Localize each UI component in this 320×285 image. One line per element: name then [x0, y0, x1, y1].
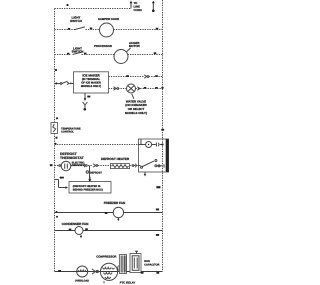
ground tick freezer fan: [117, 218, 119, 220]
wire condenser fan rung: [55, 230, 163, 232]
thermostat defrost bimetal: [61, 161, 71, 171]
node dot condenser rail: [156, 234, 159, 236]
node dot bottom c: [156, 272, 159, 274]
node dot out2 rail: [161, 87, 163, 89]
connector plug out1: [144, 75, 147, 78]
relay PTC: [120, 255, 127, 274]
svg-text:DEFROST: DEFROST: [72, 164, 84, 167]
arrow to line cord left: [130, 3, 132, 9]
svg-text:(DEFROST HEATER IS: (DEFROST HEATER IS: [73, 185, 101, 188]
node dot arrow base: [152, 9, 155, 12]
box heater note: [69, 182, 111, 194]
node dot condenser b: [85, 228, 88, 230]
svg-text:SWITCH: SWITCH: [70, 19, 82, 23]
ground tick condenser fan: [80, 235, 82, 237]
wire top neutral line: [55, 8, 132, 10]
node dot rung2 a: [67, 53, 69, 55]
node dot freezer a: [105, 212, 108, 214]
connector plug out2 right: [137, 87, 140, 90]
wire defrost rung: [55, 165, 139, 167]
connector defrost b: [83, 164, 85, 168]
svg-text:THERMOSTAT: THERMOSTAT: [60, 156, 85, 160]
switch SW1 light switch blade: [75, 27, 85, 30]
pin tick cap top: [135, 251, 138, 253]
wire left rail: [54, 9, 56, 272]
connector defrost a: [59, 165, 61, 167]
wire ice maker out 1: [109, 76, 163, 78]
wire ice maker feed: [55, 83, 74, 85]
wire L into note box: [55, 180, 66, 188]
node dot ice feed rail: [55, 83, 57, 85]
contact timer upper: [155, 160, 157, 162]
node dot right rail y130: [161, 129, 164, 131]
arrow to line cord right: [152, 3, 154, 11]
thermostat temperature control box: [51, 123, 58, 134]
node plug end blob: [84, 108, 87, 111]
node dot rung1 a: [68, 28, 70, 30]
svg-text:PROCESSOR: PROCESSOR: [94, 44, 112, 48]
pin 1 tick timer: [140, 139, 142, 145]
svg-text:DAMPER DOOR: DAMPER DOOR: [98, 17, 119, 21]
svg-text:CORD: CORD: [134, 8, 142, 12]
node dot condenser a: [69, 229, 72, 231]
node dot left rail y70: [55, 69, 57, 71]
node dot freezer left: [56, 211, 58, 213]
svg-text:SWITCH: SWITCH: [72, 50, 84, 54]
wire rung 2: [55, 54, 163, 56]
tick mark left of branch: [60, 177, 65, 179]
label water valve note: [132, 94, 134, 99]
node dot rung1 b: [90, 28, 92, 30]
svg-text:CONDENSER FAN: CONDENSER FAN: [62, 222, 90, 226]
connector compressor right: [118, 266, 120, 272]
node dot defrost rail left: [50, 164, 53, 166]
wire bottom line: [55, 271, 163, 273]
svg-text:DEFROST HEATER: DEFROST HEATER: [101, 157, 130, 161]
node dot above control: [56, 117, 58, 119]
connector defrost d: [132, 165, 134, 167]
connector on branch: [86, 171, 88, 173]
contact timer lower 2: [158, 165, 160, 167]
node dot below control: [55, 137, 57, 139]
wire ice maker plug drop: [84, 93, 86, 99]
arrow into note box: [89, 177, 91, 180]
svg-text:DEFROST: DEFROST: [90, 172, 102, 175]
solenoid water valve: [127, 84, 136, 93]
switch ice maker contact: [60, 83, 62, 85]
wire right rail: [162, 0, 164, 272]
node dot out2 a: [144, 87, 147, 89]
connector compressor plug: [92, 269, 95, 274]
wire rung 1: [55, 29, 163, 31]
svg-text:CONTROL: CONTROL: [61, 131, 74, 134]
pin tick below timer: [144, 172, 146, 175]
svg-text:MOTOR: MOTOR: [129, 44, 141, 48]
node dot out2 b: [155, 87, 158, 89]
svg-text:COMPRESSOR: COMPRESSOR: [96, 254, 116, 258]
cam contact timer: [156, 143, 162, 147]
capacitor run box: [130, 254, 141, 273]
svg-text:BK: BK: [60, 177, 64, 180]
lamp damper door heater circle: [100, 23, 114, 37]
box defrost timer: [138, 139, 168, 172]
node dot near rail y187: [156, 186, 160, 188]
wire freezer fan rung: [55, 212, 163, 214]
node dot bottom a: [58, 270, 61, 272]
wire heater branch down: [89, 166, 91, 180]
connector plug out2 left: [114, 87, 117, 90]
node dot timer rail: [161, 143, 163, 145]
resistor defrost heater: [111, 164, 130, 169]
motor freezer fan: [113, 207, 123, 217]
node dot plug: [87, 96, 90, 98]
wire ice maker out 2 water valve: [109, 88, 163, 90]
tick below compressor: [103, 281, 105, 283]
svg-text:BEHIND FREEZER BOX): BEHIND FREEZER BOX): [73, 189, 103, 192]
node dot rung1 rail: [156, 28, 159, 30]
node dot rung2 rail: [154, 52, 157, 54]
svg-text:ICE MAKER: ICE MAKER: [82, 73, 100, 77]
wire rail through timer box: [162, 139, 164, 172]
connector defrost c: [93, 164, 95, 167]
motor condenser fan: [75, 227, 83, 235]
node dot rung2 b: [84, 53, 86, 55]
switch timer common: [141, 166, 143, 168]
svg-text:OVERLOAD: OVERLOAD: [75, 279, 89, 282]
node dot rail y217: [56, 216, 58, 218]
capacitor inner outline: [132, 256, 139, 270]
svg-text:MODELS ONLY): MODELS ONLY): [125, 111, 147, 115]
motor timer: [138, 144, 145, 146]
node dot out1 a: [126, 75, 129, 77]
box ice maker: [74, 72, 109, 93]
node dot out1 b: [155, 75, 158, 77]
node dot freezer rail: [156, 209, 159, 211]
wire long rung to timer: [55, 144, 139, 146]
protector overload: [77, 266, 88, 277]
contact timer lower: [155, 165, 157, 167]
node dot bottom b: [141, 272, 144, 274]
box defrost timer thick edge: [166, 139, 169, 172]
switch SW2 light switch blade: [73, 52, 83, 55]
svg-text:CAPACITOR: CAPACITOR: [144, 264, 159, 267]
svg-text:MODELS ONLY): MODELS ONLY): [81, 85, 101, 88]
svg-text:FREEZER FAN: FREEZER FAN: [104, 201, 126, 205]
motor compressor: [100, 263, 117, 280]
pin 4 tick timer: [163, 164, 165, 167]
lamp processor circle: [114, 50, 128, 64]
node dot long rung rail: [54, 143, 56, 145]
svg-text:PTC RELAY: PTC RELAY: [120, 280, 136, 284]
connector receptacle Y: [83, 102, 88, 108]
svg-text:RUN: RUN: [144, 260, 150, 263]
node junction dot top line: [66, 4, 68, 6]
